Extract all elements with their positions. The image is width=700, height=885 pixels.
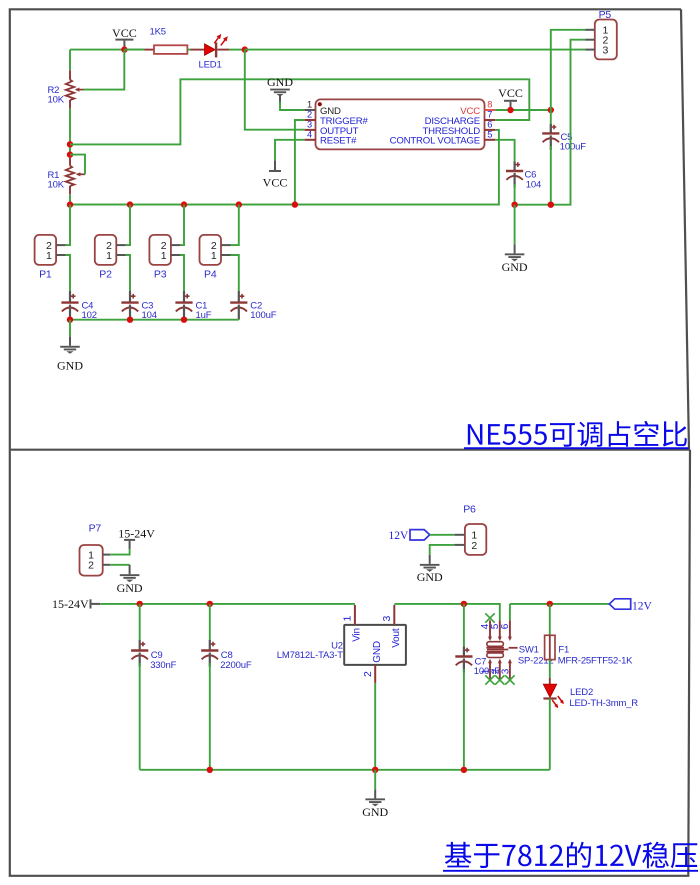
- wire GND segment: [515, 40, 586, 205]
- svg-text:1: 1: [106, 250, 112, 262]
- connector P6 body: [465, 524, 486, 555]
- ground symbol bottom center: [362, 770, 388, 819]
- svg-text:LED-TH-3mm_R: LED-TH-3mm_R: [569, 698, 638, 709]
- power flag 15-24V above P7: [118, 526, 155, 549]
- op IC U1 NE555 body: [316, 99, 485, 149]
- svg-text:7: 7: [487, 110, 492, 120]
- svg-text:LM7812L-TA3-T: LM7812L-TA3-T: [277, 650, 343, 661]
- wire U1 pin2 TRIGGER to bus: [295, 120, 305, 205]
- LED LED1: [191, 34, 230, 58]
- svg-text:12V: 12V: [632, 600, 653, 612]
- svg-text:10K: 10K: [48, 180, 65, 191]
- svg-text:2: 2: [471, 540, 477, 552]
- wire pin7 DISCHARGE loop: [70, 79, 529, 144]
- no-connect X on SW1 pin3: [505, 675, 514, 684]
- wire 12V flag to P6 pin1: [430, 534, 455, 536]
- U1 pin 3 stub: [305, 129, 316, 131]
- wire R1 bottom to bus: [69, 194, 71, 204]
- wire lower bus (gnd of caps): [70, 319, 239, 321]
- svg-text:GND: GND: [502, 260, 528, 274]
- node bus junction P4 col: [236, 201, 242, 207]
- capacitor C2 100uF: [230, 291, 247, 320]
- sheet 1 title text NE555: [468, 421, 687, 447]
- node gnd rail junction C8: [207, 767, 213, 773]
- svg-text:GND: GND: [417, 570, 443, 584]
- connector P1 body: [35, 235, 57, 265]
- svg-text:1: 1: [161, 250, 167, 262]
- P5 pin 3 stub: [585, 49, 595, 51]
- wire U2 pin2 to gnd rail: [374, 683, 376, 770]
- P1 pin 2 stub: [56, 244, 66, 246]
- P2 pin 1 stub: [116, 254, 126, 256]
- capacitor C5 100uF: [542, 110, 559, 150]
- connector P3 body: [149, 235, 171, 265]
- svg-text:2: 2: [307, 110, 312, 120]
- SW1 bottom pin 1: [488, 659, 492, 680]
- wire bus to P3 pin2: [180, 205, 184, 246]
- SW1 bottom pin 3: [508, 659, 512, 680]
- svg-text:10K: 10K: [48, 95, 65, 106]
- svg-text:104: 104: [526, 179, 541, 190]
- P2 pin 2 stub: [116, 244, 126, 246]
- wire R2 bottom to R1 top: [69, 109, 71, 158]
- P1 pin 1 stub: [56, 254, 66, 256]
- svg-text:6: 6: [500, 623, 511, 629]
- svg-text:2200uF: 2200uF: [220, 660, 252, 671]
- wire P5 pin1 to VCC node: [551, 30, 585, 110]
- capacitor C7 100nF: [455, 647, 472, 673]
- svg-text:3: 3: [602, 44, 608, 56]
- node bus junction P2 col: [127, 201, 133, 207]
- U1 pin 4 stub: [305, 139, 316, 141]
- wire F1 top: [549, 604, 551, 635]
- P5 pin 1 stub: [585, 29, 595, 31]
- resistor R2 10K potentiometer: [66, 70, 84, 108]
- svg-text:Vin: Vin: [352, 628, 363, 642]
- LED LED2: [543, 684, 564, 708]
- wire P2 pin1 to C3: [126, 255, 130, 291]
- svg-text:GND: GND: [117, 581, 143, 595]
- wire U1 pin5 to C6: [495, 140, 514, 162]
- svg-text:Vout: Vout: [391, 628, 402, 648]
- net flag 12V at P6: [388, 530, 429, 543]
- capacitor C3 104: [121, 291, 138, 320]
- wire C7 to gnd rail: [463, 669, 465, 770]
- svg-text:5: 5: [487, 129, 492, 139]
- wire rail to C9: [139, 604, 141, 640]
- P7 pin 2 stub: [103, 564, 110, 566]
- wire VCC row y=49.6: [70, 49, 144, 51]
- SW1 top pin 4: [488, 620, 492, 641]
- node rail junction C7: [461, 601, 467, 607]
- SW1 bottom pin 2: [498, 659, 502, 680]
- power flag VCC (top left): [112, 26, 137, 49]
- U1 pin 6 stub: [485, 129, 496, 131]
- svg-text:RESET#: RESET#: [320, 136, 357, 147]
- wire P6 pin2 to GND: [430, 545, 455, 555]
- SW1 top pin 5: [498, 620, 502, 641]
- U1 pin 8 stub: [485, 109, 496, 111]
- wire U1 pin8 to C5 top: [495, 109, 551, 111]
- regulator U2 body: [344, 625, 406, 665]
- svg-text:VCC: VCC: [498, 86, 523, 100]
- wire rail to C8: [209, 604, 211, 640]
- U2 pin 1 stub: [354, 605, 356, 625]
- node rail junction C9: [137, 601, 143, 607]
- capacitor C8 2200uF: [201, 640, 218, 667]
- resistor 1K5 (rect body): [144, 45, 190, 54]
- U1 pin 7 stub: [485, 119, 496, 121]
- wire P7 pin2 to GND: [110, 564, 130, 566]
- node bus junction P3 col: [181, 201, 187, 207]
- wire bus to P2 pin2: [126, 205, 130, 246]
- P5 pin 2 stub: [585, 39, 595, 41]
- svg-text:P7: P7: [89, 523, 102, 535]
- wire U1 pin6 THRESHOLD to bus: [70, 130, 499, 205]
- svg-text:330nF: 330nF: [150, 660, 176, 671]
- svg-text:1: 1: [211, 250, 217, 262]
- capacitor C4 102: [61, 291, 78, 320]
- resistor R1 10K potentiometer: [66, 158, 85, 194]
- svg-text:1K5: 1K5: [150, 27, 166, 38]
- svg-text:GND: GND: [362, 805, 388, 819]
- wire P7 pin1 to 15-24V flag: [110, 549, 130, 555]
- fuse F1: [545, 635, 555, 659]
- wire R2 wiper to VCC node: [84, 50, 125, 90]
- P6 pin 1 stub: [455, 534, 465, 536]
- sheet 1 title underline: [464, 447, 689, 449]
- power flag VCC above U1 pin8: [498, 86, 523, 110]
- sheet 2 title underline: [443, 870, 698, 872]
- node junction at VCC/wire: [121, 46, 127, 52]
- net flag 12V output: [609, 599, 652, 613]
- wire SW1 pin6 to 12V flag: [510, 603, 609, 605]
- svg-text:GND: GND: [267, 75, 293, 89]
- wire GND to U1 pin1: [280, 102, 305, 111]
- SW1 contact bars: [486, 642, 517, 658]
- svg-text:2: 2: [362, 671, 374, 677]
- wire input rail: [100, 603, 355, 605]
- svg-text:P6: P6: [463, 504, 476, 516]
- no-connect X on SW1 pin4: [485, 613, 494, 622]
- no-connect X on SW1 pin2: [495, 675, 504, 684]
- U1 pin 2 stub: [305, 119, 316, 121]
- connector P7 body: [80, 545, 103, 576]
- svg-text:LED2: LED2: [570, 687, 593, 698]
- node lower bus junction C3: [127, 317, 133, 323]
- svg-text:GND: GND: [372, 641, 383, 663]
- node bus junction R1: [67, 201, 73, 207]
- wire Vout rail to SW1 pin5: [394, 604, 500, 621]
- ground symbol below 12V flag: [417, 555, 443, 584]
- wire OUT node down to pin3 row: [245, 50, 305, 130]
- node lower bus junction C4: [67, 317, 73, 323]
- node junction C5/GND seg: [548, 202, 554, 208]
- wire C5 bottom to GND seg: [550, 146, 552, 205]
- connector P4 body: [200, 235, 222, 265]
- U2 pin 2 stub: [374, 665, 376, 683]
- wire VCC node to resistor 1K5: [124, 49, 144, 51]
- capacitor C1 1uF: [175, 291, 192, 320]
- ground symbol below C6: [502, 205, 528, 274]
- node junction VCC stem on pin8 wire: [507, 107, 513, 113]
- ground symbol below P7: [117, 565, 143, 595]
- connector P5 body: [595, 20, 617, 60]
- svg-text:MFR-25FTF52-1K: MFR-25FTF52-1K: [558, 655, 633, 666]
- SW1 top pin 6: [508, 620, 512, 641]
- switch SW1 pin5 wire: [509, 604, 511, 621]
- wire OUT node to P5 pin3: [245, 49, 585, 51]
- node junction pin8/C5/P5-1: [548, 107, 554, 113]
- node junction C6/GND: [511, 202, 517, 208]
- wire C8 to gnd rail: [209, 663, 211, 770]
- wire LED1 cathode to OUT node: [229, 49, 245, 51]
- node junction R1-top / wiper loop: [67, 151, 73, 157]
- U1 pin 1 stub: [305, 109, 316, 111]
- sheet 2 title text: [445, 842, 697, 868]
- wire U1 pin4 RESET to VCC: [275, 140, 305, 161]
- node junction R2-bottom / discharge wire: [67, 141, 73, 147]
- svg-text:P3: P3: [154, 269, 167, 281]
- node junction OUT at LED1: [242, 46, 248, 52]
- ground symbol bottom left: [57, 320, 83, 373]
- wire C9 to gnd rail: [139, 663, 141, 770]
- wire R1 wiper loop: [70, 155, 85, 175]
- wire C7 col: [463, 604, 465, 647]
- wire bus to P4 pin2: [231, 205, 239, 246]
- wire F1 to LED2: [549, 660, 551, 685]
- wire ground rail: [140, 769, 550, 771]
- U1 pin1 marker dot: [318, 102, 322, 106]
- node rail junction F1: [547, 601, 553, 607]
- svg-text:VCC: VCC: [263, 175, 288, 189]
- P3 pin 2 stub: [171, 244, 181, 246]
- svg-text:P4: P4: [204, 269, 217, 281]
- svg-text:F1: F1: [558, 645, 569, 656]
- wire bus to P1 pin2: [66, 205, 70, 246]
- P4 pin 1 stub: [221, 254, 231, 256]
- connector P2 body: [95, 235, 117, 265]
- svg-text:CONTROL VOLTAGE: CONTROL VOLTAGE: [390, 136, 480, 147]
- wire from VCC row down to R2: [69, 50, 71, 71]
- svg-text:6: 6: [487, 120, 492, 130]
- svg-text:SW1: SW1: [519, 645, 539, 656]
- svg-text:3: 3: [381, 616, 393, 622]
- node rail junction C8: [207, 601, 213, 607]
- wire C6 bottom to GND seg: [514, 184, 516, 205]
- no-connect X on SW1 pin1: [485, 675, 494, 684]
- svg-text:P5: P5: [599, 9, 612, 21]
- svg-text:VCC: VCC: [112, 26, 137, 40]
- svg-text:2: 2: [88, 560, 94, 572]
- svg-text:100uF: 100uF: [560, 142, 586, 153]
- P7 pin 1 stub: [103, 554, 110, 556]
- wire P4 pin1 to C2: [231, 255, 239, 291]
- node gnd rail junction C7: [461, 767, 467, 773]
- ground symbol above U1 pin1: [267, 75, 293, 103]
- power flag VCC below-left of U1 (inverted): [263, 160, 288, 189]
- svg-text:P1: P1: [39, 269, 52, 281]
- node lower bus junction C1: [181, 317, 187, 323]
- wire P1 pin1 to C4: [66, 255, 70, 291]
- svg-text:15-24V: 15-24V: [118, 526, 155, 540]
- svg-text:P2: P2: [99, 269, 112, 281]
- P4 pin 2 stub: [221, 244, 231, 246]
- node gnd rail junction U2 pin2: [372, 767, 378, 773]
- P6 pin 2 stub: [455, 544, 465, 546]
- U1 pin 5 stub: [485, 139, 496, 141]
- node bus junction TRIGGER col: [292, 201, 298, 207]
- svg-text:8: 8: [487, 100, 492, 110]
- svg-text:100uF: 100uF: [250, 310, 276, 321]
- wire P3 pin1 to C1: [180, 255, 184, 291]
- svg-text:GND: GND: [57, 359, 83, 373]
- svg-text:1: 1: [342, 616, 354, 622]
- svg-text:1: 1: [46, 250, 52, 262]
- wire LED2 to gnd rail: [549, 699, 551, 770]
- svg-text:12V: 12V: [388, 530, 409, 542]
- svg-text:LED1: LED1: [199, 59, 222, 70]
- svg-text:1: 1: [307, 100, 312, 110]
- capacitor C6 104: [506, 162, 523, 188]
- wire main bus (trigger/threshold net): [70, 204, 499, 206]
- svg-text:3: 3: [500, 668, 511, 674]
- svg-text:3: 3: [307, 120, 312, 130]
- svg-text:4: 4: [307, 129, 312, 139]
- svg-text:15-24V: 15-24V: [52, 597, 89, 611]
- P3 pin 1 stub: [171, 254, 181, 256]
- capacitor C9 330nF: [131, 640, 148, 667]
- U2 pin 3 stub: [393, 605, 395, 625]
- net label 15-24V at rail: [52, 597, 100, 611]
